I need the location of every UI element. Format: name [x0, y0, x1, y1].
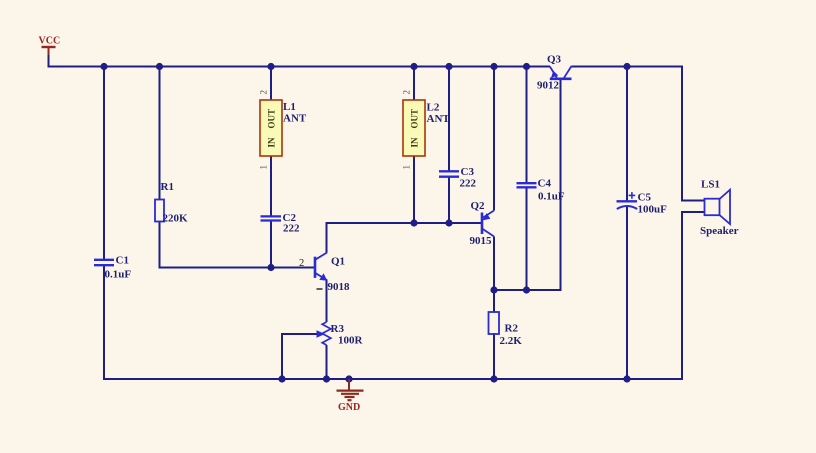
svg-text:2: 2 [299, 258, 304, 269]
wire L1 top [270, 67, 272, 103]
capacitor C4 [517, 178, 565, 203]
svg-text:9012: 9012 [537, 80, 560, 92]
node dot rail C1 [100, 63, 107, 70]
wire Q1 collector to Q2 base [327, 222, 483, 224]
svg-text:OUT: OUT [267, 109, 277, 129]
svg-text:222: 222 [460, 178, 477, 190]
node dot rail Q2 emitter [490, 63, 497, 70]
wire R1 branch lower [159, 221, 161, 269]
svg-text:1: 1 [259, 165, 269, 170]
svg-text:100uF: 100uF [638, 204, 668, 216]
wire R3 bottom [326, 345, 328, 380]
svg-text:2: 2 [259, 90, 269, 95]
svg-text:0.1uF: 0.1uF [538, 191, 565, 203]
node dot rail C3 [445, 63, 452, 70]
wire L1 bottom to C2 [270, 154, 272, 216]
svg-text:0.1uF: 0.1uF [105, 269, 132, 281]
svg-text:LS1: LS1 [701, 179, 720, 191]
wire VCC stem [48, 55, 50, 68]
node dot C3 bottom [445, 219, 452, 226]
node dot R2 bottom [490, 375, 497, 382]
svg-text:Q2: Q2 [471, 200, 486, 212]
svg-text:C5: C5 [638, 192, 652, 204]
svg-text:GND: GND [338, 402, 360, 413]
resistor R2 [489, 312, 523, 347]
node dot Q2 collector [490, 286, 497, 293]
svg-text:VCC: VCC [39, 36, 61, 47]
wire R3 wiper [282, 334, 317, 380]
wire C1 branch lower [103, 266, 105, 380]
wire C3 top [448, 67, 450, 173]
node dot C5 bottom [623, 375, 630, 382]
svg-text:ANT: ANT [283, 113, 307, 125]
svg-text:220K: 220K [163, 213, 189, 225]
resistor R1 [155, 181, 188, 225]
svg-text:9018: 9018 [328, 281, 351, 293]
svg-text:Q1: Q1 [331, 256, 345, 268]
transistor Q1 [299, 253, 350, 294]
node dot rail C5 [623, 63, 630, 70]
svg-text:Q3: Q3 [547, 54, 562, 66]
node dot R3 bottom [323, 375, 330, 382]
svg-text:OUT: OUT [410, 109, 420, 129]
wire C4 top [526, 67, 528, 185]
wire L2 top [413, 67, 415, 103]
capacitor C5 (electrolytic) [617, 192, 668, 216]
svg-text:1: 1 [402, 165, 412, 170]
wire R2 top [493, 290, 495, 312]
svg-text:L1: L1 [283, 101, 296, 113]
svg-text:Speaker: Speaker [700, 225, 739, 237]
wire Q1 collector vertical [326, 222, 328, 253]
node dot rail L1 [267, 63, 274, 70]
wire Q3 base drop [560, 80, 562, 292]
wire Q1 emitter vertical [326, 280, 328, 323]
wire C5 bottom [626, 206, 628, 380]
node dot C2 bottom [267, 264, 274, 271]
wire Q2 emitter vertical [493, 67, 495, 211]
wire C3 bottom [448, 176, 450, 224]
node dot L2 bottom [410, 219, 417, 226]
wire C1 branch upper [103, 67, 105, 260]
svg-text:C1: C1 [116, 255, 129, 267]
inductor L1 [259, 90, 307, 170]
inductor L2 [402, 90, 451, 170]
transistor Q2 [470, 200, 495, 247]
svg-text:R3: R3 [331, 323, 345, 335]
wire C2 bottom [270, 221, 272, 268]
svg-text:R2: R2 [505, 323, 519, 335]
svg-text:9015: 9015 [470, 235, 493, 247]
node dot wiper bottom [278, 375, 285, 382]
capacitor C1 [94, 255, 131, 281]
svg-text:C4: C4 [538, 178, 552, 190]
capacitor C2 [261, 212, 301, 235]
wire C5 top [626, 67, 628, 202]
wire speaker bottom branch [682, 212, 705, 380]
wire R1 branch upper [159, 67, 161, 201]
svg-text:2: 2 [402, 90, 412, 95]
speaker LS1 [700, 179, 739, 238]
power symbol VCC [39, 36, 61, 57]
node dot rail C4 [523, 63, 530, 70]
wire C4 bottom [526, 187, 528, 290]
svg-text:222: 222 [283, 223, 300, 235]
node dot C4 bottom [523, 286, 530, 293]
svg-text:2.2K: 2.2K [500, 335, 523, 347]
svg-text:ANT: ANT [427, 113, 451, 125]
wire R2 bottom [493, 333, 495, 380]
wiper arrowhead [317, 330, 326, 338]
svg-text:IN: IN [267, 137, 277, 148]
svg-text:R1: R1 [161, 181, 174, 193]
wire bottom rail [103, 378, 683, 380]
svg-text:L2: L2 [427, 102, 440, 114]
wire top rail left (VCC to Q3 emitter) [48, 66, 551, 68]
svg-text:IN: IN [410, 137, 420, 148]
rheostat R3 [322, 322, 363, 347]
node dot rail R1 [156, 63, 163, 70]
svg-text:C3: C3 [461, 166, 475, 178]
wire L2 bottom [413, 154, 415, 224]
wire Q2 collector vertical [493, 237, 495, 292]
wire top rail right (Q3 collector to speaker corner) [572, 66, 684, 68]
wire R1 to Q1 base [159, 267, 316, 269]
svg-text:100R: 100R [338, 335, 364, 347]
node dot rail L2 [410, 63, 417, 70]
wire Q2 collector to Q3 base node [494, 289, 561, 291]
wire speaker top branch [682, 66, 705, 201]
transistor Q3 [537, 54, 572, 92]
node dot GND [345, 375, 352, 382]
ground GND [337, 379, 364, 413]
capacitor C3 [439, 166, 477, 190]
